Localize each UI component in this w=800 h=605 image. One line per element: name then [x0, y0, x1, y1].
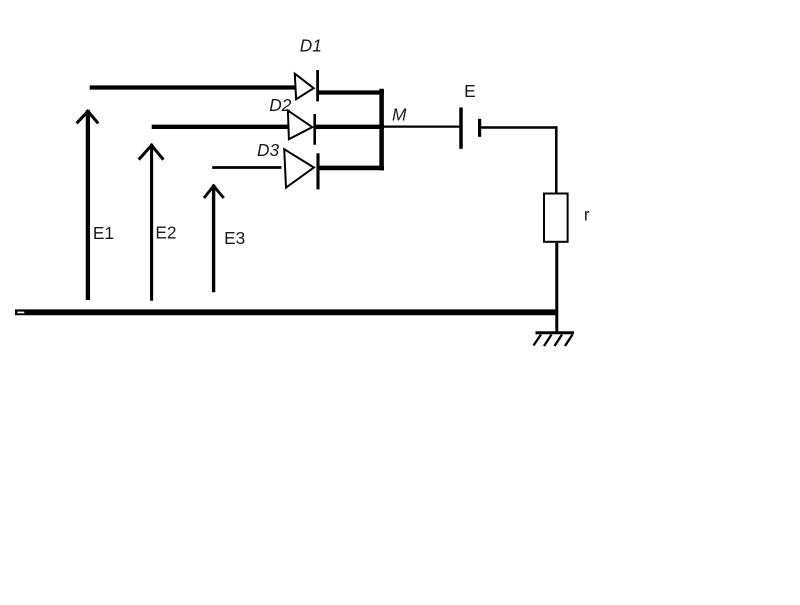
minus mark on bus	[17, 312, 24, 314]
source E1 arrow	[77, 110, 99, 300]
svg-text:E: E	[464, 81, 476, 101]
svg-text:E3: E3	[224, 228, 245, 248]
diode D3	[284, 149, 318, 189]
svg-text:D3: D3	[257, 140, 279, 160]
wire E1 input to D1	[90, 85, 295, 89]
ground hatch 3	[555, 335, 563, 347]
ground hatch 2	[544, 335, 552, 347]
wire D3 cathode to node	[318, 166, 384, 171]
source E3 arrow	[204, 185, 224, 293]
ground hatch 1	[534, 335, 542, 346]
resistor r	[544, 194, 568, 242]
wire D1 cathode to node	[318, 90, 384, 94]
diode D1	[295, 70, 318, 101]
svg-text:E1: E1	[93, 223, 114, 243]
wire corner down to resistor	[555, 126, 558, 192]
ground symbol plate	[536, 331, 575, 334]
svg-text:D1: D1	[300, 36, 322, 56]
battery E long plate	[459, 108, 463, 149]
wire D2 cathode to node M	[315, 125, 384, 129]
ground bus	[15, 309, 556, 315]
wire E3 input to D3	[212, 166, 281, 169]
battery E short plate	[478, 119, 481, 137]
ground hatch 4	[565, 335, 573, 347]
source E2 arrow	[139, 144, 164, 301]
diode D2	[288, 111, 315, 145]
svg-text:r: r	[584, 205, 590, 225]
wire resistor to ground	[555, 243, 558, 333]
svg-text:M: M	[392, 104, 407, 124]
wire battery to corner	[481, 126, 558, 129]
wire E2 input to D2	[152, 125, 288, 129]
svg-text:E2: E2	[155, 223, 176, 243]
wire node vertical	[379, 89, 384, 171]
wire node M to battery	[382, 125, 460, 127]
svg-text:D2: D2	[269, 95, 291, 115]
